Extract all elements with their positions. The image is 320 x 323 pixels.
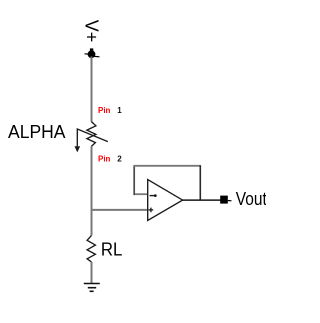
op-amp output wire — [182, 199, 220, 201]
svg-text:Pin: Pin — [98, 155, 111, 164]
wire V+ to ALPHA — [91, 57, 93, 122]
feedback wire: right vertical segment — [199, 165, 201, 200]
svg-text:RL: RL — [101, 240, 123, 260]
output terminal square — [220, 196, 228, 204]
feedback wire: top horizontal segment — [133, 165, 200, 167]
resistor RL body — [87, 235, 95, 262]
svg-text:1: 1 — [117, 106, 122, 115]
feedback wire: minus-input horizontal segment — [134, 193, 148, 195]
op-amp U1 triangle — [148, 180, 183, 221]
feedback wire: left vertical segment — [133, 166, 135, 195]
svg-text:V+: V+ — [82, 20, 102, 43]
potentiometer ALPHA body — [87, 122, 96, 147]
wire RL to ground — [91, 262, 93, 283]
wire ALPHA to RL / node — [91, 146, 93, 235]
op-amp plus mark — [149, 208, 154, 213]
svg-text:Vout: Vout — [236, 189, 266, 209]
ground symbol — [84, 284, 100, 292]
power terminal dot — [85, 48, 100, 58]
svg-text:Pin: Pin — [98, 106, 111, 115]
svg-text:ALPHA: ALPHA — [8, 122, 66, 142]
wire node to op-amp + input — [92, 209, 148, 211]
potentiometer wiper arrow — [75, 129, 108, 152]
svg-text:2: 2 — [117, 155, 122, 164]
op-amp minus mark — [150, 194, 157, 197]
terminal whisker — [228, 200, 232, 202]
